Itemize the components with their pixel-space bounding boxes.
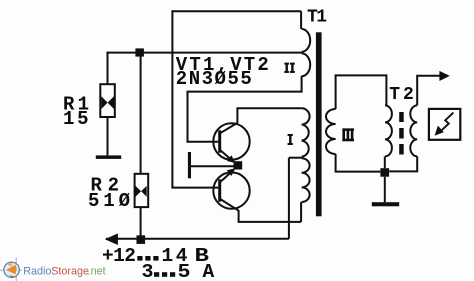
wire R1 top lead bbox=[107, 52, 109, 85]
label winding II bbox=[284, 63, 295, 73]
lightning bolt in box bbox=[440, 113, 453, 132]
lightning arrowhead bbox=[435, 126, 444, 136]
R1 body bbox=[100, 84, 115, 117]
wire winding II bottom to VT1 base bbox=[188, 76, 302, 142]
wire top loop left edge down to VT2 base bbox=[171, 10, 173, 187]
winding I bumps upper bbox=[302, 108, 310, 156]
winding III bottom lead to junction bbox=[336, 154, 381, 172]
R2 body bbox=[135, 174, 149, 207]
svg-text:T1: T1 bbox=[307, 7, 327, 27]
VT1 emitter arrowhead bbox=[227, 155, 236, 163]
label winding III bbox=[342, 128, 354, 141]
chassis bar at emitters bbox=[188, 152, 191, 178]
supply input arrowhead (left) bbox=[105, 233, 118, 245]
R1 bowtie mark bbox=[101, 96, 114, 109]
wire bottom supply rail bbox=[106, 238, 289, 240]
wire VT2 base bbox=[171, 187, 218, 189]
svg-text:2N3Ø55: 2N3Ø55 bbox=[176, 68, 252, 90]
VT1 collector diagonal bbox=[221, 123, 238, 133]
wire R2 top lead bbox=[140, 53, 142, 174]
svg-text:Radio: Radio bbox=[23, 266, 51, 278]
wire top loop horizontal bbox=[172, 10, 302, 12]
T2 core dash 2 bbox=[399, 128, 404, 139]
T2 right winding bottom lead to junction bbox=[389, 156, 417, 171]
T2 right winding top lead to output bbox=[417, 76, 440, 106]
output arrowhead (top right) bbox=[439, 71, 449, 81]
svg-text:5: 5 bbox=[178, 261, 191, 281]
VT1 circle bbox=[213, 123, 249, 159]
winding II bump 1 bbox=[302, 29, 311, 52]
VT2 circle bbox=[213, 172, 249, 208]
watermark globe logo bbox=[4, 262, 19, 277]
wire winding II top lead bbox=[300, 11, 302, 29]
wire R1 bottom lead bbox=[107, 117, 109, 155]
VT2 collector diagonal bbox=[221, 199, 239, 210]
winding I bumps lower bbox=[302, 158, 310, 202]
VT1 emitter diagonal bbox=[221, 151, 233, 162]
wire R2 bottom lead bbox=[140, 207, 142, 239]
svg-text:А: А bbox=[203, 261, 215, 281]
wire winding I center tap bbox=[289, 157, 302, 159]
svg-text:T2: T2 bbox=[389, 85, 414, 105]
svg-text:Storage: Storage bbox=[51, 266, 89, 278]
winding II bump 2 bbox=[302, 53, 311, 76]
watermark globe land bbox=[6, 265, 17, 275]
winding III loop top to T2 bbox=[335, 75, 387, 105]
wire VT2 collector down and right to winding I bottom bbox=[239, 210, 302, 222]
wire VT1 collector to winding I top bbox=[237, 108, 301, 123]
wire junction to ground (T2) bbox=[384, 177, 386, 203]
T2 left winding bottom lead bbox=[384, 156, 386, 168]
svg-text:51Ø: 51Ø bbox=[88, 190, 130, 212]
ground bar below T2 bbox=[372, 202, 399, 206]
node junction dot top (R1/R2/tap) bbox=[135, 48, 144, 56]
VT2 base bar bbox=[218, 179, 221, 201]
svg-text:+12: +12 bbox=[102, 245, 136, 267]
svg-text:15: 15 bbox=[63, 108, 89, 130]
T2 left winding bumps bbox=[385, 105, 392, 156]
watermark crosshair bbox=[0, 258, 22, 281]
node junction dot bottom rail bbox=[137, 235, 146, 244]
ground bar below R1 bbox=[96, 155, 121, 159]
VT2 emitter arrowhead bbox=[227, 168, 236, 176]
VT2 emitter diagonal bbox=[221, 171, 233, 182]
winding III left loop edge bbox=[335, 75, 337, 109]
T2 right winding bumps bbox=[410, 105, 417, 156]
wire feedback tap y52 bbox=[107, 52, 302, 54]
wire emitters to chassis bar bbox=[191, 165, 234, 167]
winding III bumps bbox=[326, 109, 336, 154]
T2 core dash 1 bbox=[399, 112, 404, 122]
T1 core bar bbox=[316, 32, 322, 216]
svg-text:3: 3 bbox=[142, 261, 154, 281]
T2 core dash 3 bbox=[399, 144, 404, 155]
svg-text:.net: .net bbox=[88, 266, 106, 278]
VT1 base bar bbox=[218, 130, 221, 152]
node T2 ground junction dot bbox=[380, 168, 389, 177]
node emitter junction dot bbox=[234, 161, 243, 169]
label supply dots 1 bbox=[137, 256, 158, 261]
R2 bowtie mark bbox=[135, 186, 146, 197]
wire center-tap vertical x289 bbox=[288, 158, 290, 239]
label current dots 2 bbox=[154, 272, 175, 277]
wire winding I bottom lead bbox=[300, 202, 302, 222]
discharge lamp box bbox=[429, 109, 460, 140]
label winding I bbox=[288, 134, 293, 145]
